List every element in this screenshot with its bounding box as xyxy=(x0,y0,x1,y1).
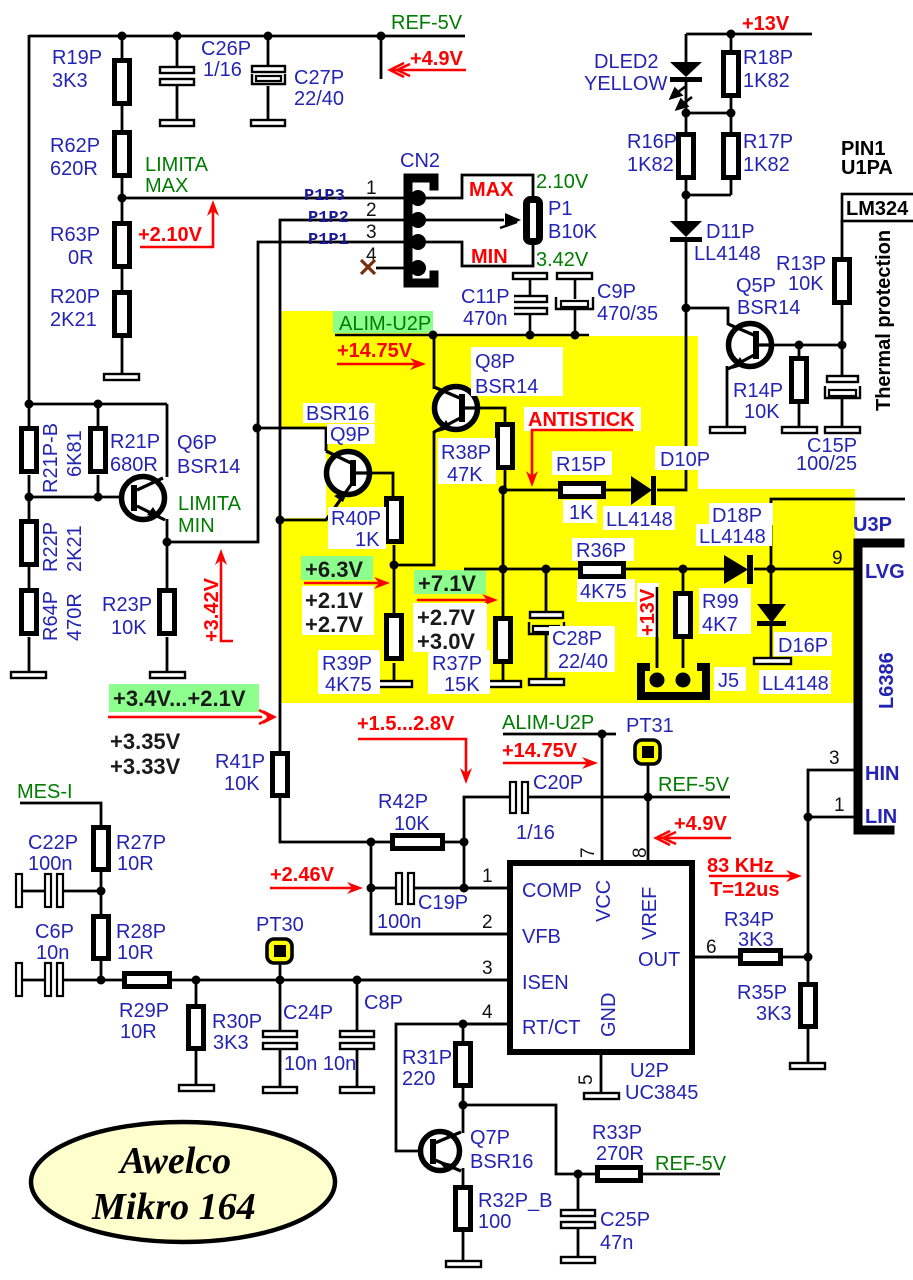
wire LED/R18P joining row xyxy=(686,112,731,115)
resistor R19P xyxy=(115,61,130,104)
label J5 xyxy=(714,667,746,691)
wire R42P node row xyxy=(443,841,464,844)
wire C22P row xyxy=(22,890,45,893)
wire R16P/R17P bottom row xyxy=(686,194,731,197)
wire D16P stem xyxy=(770,569,773,604)
svg-text:LL4148: LL4148 xyxy=(606,509,673,531)
yellow highlight region xyxy=(281,311,855,703)
wire +13V rail xyxy=(686,33,812,36)
svg-text:C6P: C6P xyxy=(35,921,74,943)
wire RTCT pin4 xyxy=(463,1023,510,1026)
J5 pin right xyxy=(676,673,691,688)
wire pin1 to P1 top xyxy=(426,175,533,198)
svg-text:22/40: 22/40 xyxy=(558,651,608,673)
svg-text:6K81: 6K81 xyxy=(64,430,86,477)
terminal C6P xyxy=(16,963,22,996)
wire +6.3V node to R39P xyxy=(393,565,396,613)
svg-text:1: 1 xyxy=(482,866,493,887)
wire Q5P emitter to ground xyxy=(726,366,729,427)
svg-text:+13V: +13V xyxy=(742,13,790,35)
node dots bottom left xyxy=(97,838,469,985)
svg-text:+3.35V: +3.35V xyxy=(110,729,181,754)
resistor R36P horizontal xyxy=(581,564,624,577)
wire D10P to D11P column xyxy=(657,308,686,490)
svg-text:+3.0V: +3.0V xyxy=(417,629,475,654)
svg-text:R19P: R19P xyxy=(52,47,102,69)
wire Q6P emitter xyxy=(166,519,169,588)
label BSR16 Q9P xyxy=(303,403,375,423)
svg-text:R30P: R30P xyxy=(212,1011,262,1033)
svg-text:D11P: D11P xyxy=(706,221,755,243)
svg-text:83 KHz: 83 KHz xyxy=(707,855,774,877)
wire C20P elbow xyxy=(464,797,511,842)
box LM324 xyxy=(842,194,913,221)
wire Q8P base stub to R38P xyxy=(466,408,505,422)
svg-text:10R: 10R xyxy=(120,1021,157,1043)
resistor R37P xyxy=(496,619,511,662)
svg-text:R27P: R27P xyxy=(116,832,166,854)
wire LVG row y569 xyxy=(464,568,580,571)
wire R15P node row xyxy=(503,489,560,492)
wire Q9P emitter from P1P2 node xyxy=(280,519,327,522)
svg-text:Q5P: Q5P xyxy=(736,275,776,297)
label D16P xyxy=(774,632,832,656)
ground under R39P xyxy=(377,681,412,687)
resistor R20P xyxy=(115,293,130,336)
svg-text:+2.7V: +2.7V xyxy=(305,612,363,637)
svg-text:MIN: MIN xyxy=(178,515,215,537)
wire P1P2 net xyxy=(280,220,411,520)
terminal C22P xyxy=(16,874,22,907)
LED DLED2 xyxy=(670,62,702,77)
ground under R20P xyxy=(104,374,139,380)
wire RT/CT to Q7P base xyxy=(396,1024,510,1151)
svg-text:1K82: 1K82 xyxy=(627,154,674,176)
label R38P 47K xyxy=(438,438,496,484)
svg-text:1: 1 xyxy=(834,795,845,816)
wire Q6P base row y497 xyxy=(29,496,121,499)
svg-text:R13P: R13P xyxy=(776,253,826,275)
svg-text:J5: J5 xyxy=(718,670,739,692)
node dots right xyxy=(804,813,813,962)
svg-text:4K7: 4K7 xyxy=(702,614,738,636)
diode D11P xyxy=(670,221,702,237)
ground under C8P xyxy=(340,1087,374,1093)
svg-text:15K: 15K xyxy=(444,674,480,696)
svg-text:1: 1 xyxy=(366,178,377,199)
svg-text:8: 8 xyxy=(630,847,651,858)
svg-text:R41P: R41P xyxy=(215,751,265,773)
svg-text:2: 2 xyxy=(366,200,377,221)
resistor R34P horizontal xyxy=(741,951,781,964)
label R36P 4K75 xyxy=(572,538,634,561)
capacitor C9P polarized xyxy=(557,273,592,279)
svg-text:C11P: C11P xyxy=(461,286,510,308)
svg-text:470R: 470R xyxy=(64,593,86,641)
svg-text:7: 7 xyxy=(578,847,599,858)
svg-text:BSR14: BSR14 xyxy=(475,376,538,398)
wire LVG up and right xyxy=(771,499,905,569)
resistor R99 xyxy=(676,594,691,637)
node dots U2P area xyxy=(459,730,653,1029)
svg-text:MES-I: MES-I xyxy=(17,781,73,803)
svg-text:LM324: LM324 xyxy=(846,198,909,220)
svg-text:REF-5V: REF-5V xyxy=(391,12,463,34)
resistor R38P xyxy=(498,425,513,468)
svg-text:UC3845: UC3845 xyxy=(625,1082,698,1104)
resistor R63P xyxy=(115,224,130,267)
svg-text:+14.75V: +14.75V xyxy=(502,740,578,762)
svg-text:C24P: C24P xyxy=(283,1002,333,1024)
wire R28P bottom xyxy=(100,960,103,980)
svg-text:C9P: C9P xyxy=(597,281,636,303)
svg-text:+4.9V: +4.9V xyxy=(674,813,727,835)
svg-text:C20P: C20P xyxy=(533,772,583,794)
terminal bar under D16P xyxy=(754,658,791,664)
svg-text:220: 220 xyxy=(402,1068,435,1090)
svg-text:+2.10V: +2.10V xyxy=(138,224,203,246)
svg-text:+3.33V: +3.33V xyxy=(110,754,181,779)
resistor R23P xyxy=(160,591,175,634)
svg-text:47n: 47n xyxy=(600,1232,633,1254)
resistor R30P xyxy=(189,1007,204,1049)
wire Q8P collector to ALIM row xyxy=(433,335,436,389)
label +2.1V +2.7V xyxy=(302,586,374,635)
diode D10P xyxy=(631,476,652,505)
svg-text:R15P: R15P xyxy=(556,454,606,476)
CN2 pin 2 xyxy=(410,212,426,228)
svg-text:Q7P: Q7P xyxy=(470,1127,510,1149)
wire R15P to D10P xyxy=(605,489,632,492)
svg-text:LIMITA: LIMITA xyxy=(178,493,242,515)
ground under R23P xyxy=(150,672,185,678)
label R40P 1K xyxy=(328,507,386,549)
resistor R27P xyxy=(94,828,109,870)
test point PT30 xyxy=(267,939,292,963)
arrow +4.9V pointing left xyxy=(390,63,466,77)
ground under C24P xyxy=(263,1087,297,1093)
svg-text:ISEN: ISEN xyxy=(522,972,569,994)
wire Q9P base from P1P1 node xyxy=(257,428,326,451)
svg-text:47K: 47K xyxy=(447,464,483,486)
wire PT30 stub xyxy=(279,962,282,980)
svg-text:2K21: 2K21 xyxy=(50,309,97,331)
svg-text:COMP: COMP xyxy=(522,880,582,902)
resistor R21P-B xyxy=(22,429,37,472)
svg-text:LVG: LVG xyxy=(865,561,905,583)
svg-text:D10P: D10P xyxy=(660,449,710,471)
ground under C28P xyxy=(529,679,564,685)
wire +6.3V node to Q8P emitter xyxy=(394,431,434,565)
wire Q5P base row xyxy=(772,344,842,347)
svg-text:R99: R99 xyxy=(702,591,739,613)
svg-text:P1P1: P1P1 xyxy=(308,231,349,250)
CN2 pin 3 xyxy=(410,234,426,250)
svg-text:U1PA: U1PA xyxy=(841,157,893,179)
capacitor C28P polarized xyxy=(530,612,563,618)
svg-text:R33P: R33P xyxy=(592,1122,642,1144)
ground under R64P xyxy=(11,672,46,678)
node dots top right xyxy=(682,30,847,350)
svg-text:Q6P: Q6P xyxy=(177,432,217,454)
ground under C27P xyxy=(251,120,285,126)
logo Awelco Mikro 164 xyxy=(31,1122,335,1242)
wire Q7P collector row to R33P xyxy=(463,1105,597,1174)
wire C15P stems xyxy=(841,345,844,376)
svg-text:LIN: LIN xyxy=(865,806,897,828)
wire REF stub down xyxy=(380,36,383,79)
svg-text:R23P: R23P xyxy=(102,594,152,616)
svg-text:R21P-B: R21P-B xyxy=(40,423,62,493)
svg-text:VFB: VFB xyxy=(522,926,561,948)
svg-text:R18P: R18P xyxy=(743,47,793,69)
svg-text:+2.7V: +2.7V xyxy=(417,605,475,630)
IC U3P L6386 outline xyxy=(858,543,900,830)
svg-text:470n: 470n xyxy=(463,308,508,330)
svg-text:VCC: VCC xyxy=(593,880,615,922)
svg-text:R63P: R63P xyxy=(50,224,100,246)
svg-text:R29P: R29P xyxy=(119,1000,169,1022)
svg-text:Thermal protection: Thermal protection xyxy=(873,230,895,411)
svg-text:3K3: 3K3 xyxy=(738,929,774,951)
svg-text:ALIM-U2P: ALIM-U2P xyxy=(339,313,431,335)
svg-text:U3P: U3P xyxy=(853,514,892,536)
capacitor C15P polarized xyxy=(827,376,858,382)
svg-text:ALIM-U2P: ALIM-U2P xyxy=(502,712,594,734)
ground under C26P xyxy=(160,120,194,126)
svg-text:RT/CT: RT/CT xyxy=(522,1017,581,1039)
svg-text:10K: 10K xyxy=(788,273,824,295)
transistor Q8P xyxy=(435,387,478,430)
no-connect X mark xyxy=(361,260,375,274)
label LL4148 D16P xyxy=(759,670,831,694)
svg-text:100/25: 100/25 xyxy=(796,453,857,475)
wire C28P stem xyxy=(545,569,548,613)
svg-text:4K75: 4K75 xyxy=(325,674,372,696)
svg-text:+7.1V: +7.1V xyxy=(418,571,476,596)
label R99 4K7 xyxy=(699,588,751,634)
wire LIN xyxy=(808,816,855,819)
svg-text:LL4148: LL4148 xyxy=(694,243,761,265)
svg-text:LL4148: LL4148 xyxy=(699,526,766,548)
svg-text:620R: 620R xyxy=(50,158,98,180)
resistor R13P xyxy=(835,260,850,303)
wire R99 stem xyxy=(682,569,685,591)
svg-text:1/16: 1/16 xyxy=(203,59,242,81)
svg-text:T=12us: T=12us xyxy=(710,879,779,901)
diode D18P xyxy=(724,555,748,584)
node dots ALIM row xyxy=(429,331,438,340)
wire C19P row xyxy=(371,842,510,934)
svg-text:+1.5...2.8V: +1.5...2.8V xyxy=(357,713,455,735)
svg-text:R34P: R34P xyxy=(724,909,774,931)
svg-text:10R: 10R xyxy=(117,942,154,964)
wire R15P node down to R37P node xyxy=(502,490,505,569)
transistor Q5P xyxy=(729,324,772,367)
transistor Q6P xyxy=(122,477,165,520)
svg-text:D18P: D18P xyxy=(712,505,762,527)
ground under R14P xyxy=(782,427,817,433)
svg-text:R32P_B: R32P_B xyxy=(478,1190,553,1212)
svg-text:GND: GND xyxy=(598,993,620,1037)
svg-text:DLED2: DLED2 xyxy=(594,51,658,73)
connector J5 xyxy=(641,667,706,696)
svg-text:C25P: C25P xyxy=(600,1209,650,1231)
label LL4148 D10P xyxy=(603,506,675,530)
svg-text:3: 3 xyxy=(366,222,377,243)
CN2 pin 4 xyxy=(410,260,426,276)
wire R37P down xyxy=(502,569,505,616)
svg-text:1/16: 1/16 xyxy=(516,822,555,844)
svg-text:R31P: R31P xyxy=(402,1047,452,1069)
svg-text:+2.1V: +2.1V xyxy=(305,588,363,613)
svg-text:100n: 100n xyxy=(377,911,422,933)
svg-text:R42P: R42P xyxy=(378,791,428,813)
svg-text:P1P3: P1P3 xyxy=(304,187,345,206)
wire ISEN pin3 xyxy=(357,979,510,982)
capacitor C20P xyxy=(510,782,516,813)
svg-text:1K: 1K xyxy=(569,502,594,524)
capacitor C8P xyxy=(340,1031,374,1037)
wire left rail xyxy=(28,35,31,405)
svg-text:9: 9 xyxy=(832,548,843,569)
svg-text:+4.9V: +4.9V xyxy=(410,48,463,70)
svg-text:+14.75V: +14.75V xyxy=(337,340,413,362)
transistor Q9P xyxy=(327,452,370,495)
wire R16P R17P stems xyxy=(685,113,688,132)
svg-text:2K21: 2K21 xyxy=(64,525,86,572)
wire D11P stem xyxy=(685,195,688,221)
resistor R35P xyxy=(801,985,816,1027)
svg-text:R21P: R21P xyxy=(110,431,160,453)
svg-text:Mikro 164: Mikro 164 xyxy=(91,1186,256,1228)
svg-text:MIN: MIN xyxy=(471,246,508,268)
wire P1 bottom MIN xyxy=(426,242,533,266)
wire Q6P collector xyxy=(166,404,169,477)
capacitor C6P xyxy=(45,963,51,996)
wire Q7P collector xyxy=(462,1105,465,1133)
svg-text:PT30: PT30 xyxy=(256,914,304,936)
svg-text:C8P: C8P xyxy=(364,992,403,1014)
resistor R29P horizontal xyxy=(125,974,170,987)
label ANTISTICK with arrow xyxy=(524,407,641,431)
node dots bottom xyxy=(459,1101,583,1179)
svg-text:R16P: R16P xyxy=(627,131,677,153)
capacitor C26P xyxy=(160,67,194,73)
wire R27P bottom xyxy=(100,871,103,914)
resistor R21P xyxy=(91,429,106,472)
resistor R33P horizontal xyxy=(598,1168,641,1181)
wire R19P column xyxy=(121,36,124,58)
svg-text:R37P: R37P xyxy=(432,653,482,675)
resistor R14P xyxy=(792,359,807,402)
arrow +3.4V row xyxy=(108,710,272,724)
svg-text:D16P: D16P xyxy=(778,635,828,657)
svg-text:1K82: 1K82 xyxy=(743,154,790,176)
svg-text:100: 100 xyxy=(478,1211,511,1233)
svg-text:+3.4V...+2.1V: +3.4V...+2.1V xyxy=(113,686,246,711)
connector CN2 body xyxy=(408,178,434,283)
DLED2 light arrows xyxy=(671,86,692,109)
svg-text:22/40: 22/40 xyxy=(294,88,344,110)
resistor R42P horizontal xyxy=(393,836,443,849)
wire R34P to node xyxy=(783,956,808,959)
wire left rail segments xyxy=(28,404,31,428)
label R39P 4K75 xyxy=(318,650,380,694)
ground under U2P GND xyxy=(584,1093,619,1099)
resistor R16P xyxy=(679,135,694,178)
test point PT31 xyxy=(635,740,660,764)
svg-text:2.10V: 2.10V xyxy=(536,171,589,193)
wire R35P stems xyxy=(807,957,810,982)
wire C24P stems xyxy=(279,980,282,1031)
svg-text:Q9P: Q9P xyxy=(330,424,370,446)
label 1K xyxy=(563,500,597,523)
svg-text:+2.46V: +2.46V xyxy=(270,864,335,886)
svg-text:3K3: 3K3 xyxy=(213,1032,249,1054)
svg-text:C22P: C22P xyxy=(28,832,78,854)
capacitor C11P xyxy=(513,273,547,279)
wire Q7P emitter to R32P_B xyxy=(462,1168,465,1185)
green highlight +3.4V...+2.1V xyxy=(109,684,259,712)
wire R33P right REF-5V xyxy=(642,1173,720,1176)
svg-text:Awelco: Awelco xyxy=(118,1140,231,1182)
svg-text:3: 3 xyxy=(829,748,840,769)
svg-text:10n 10n: 10n 10n xyxy=(284,1053,356,1075)
resistor R31P xyxy=(456,1044,471,1086)
green highlight ALIM-U2P xyxy=(333,311,433,333)
svg-text:LIMITA: LIMITA xyxy=(145,154,209,176)
wire R18P stems xyxy=(730,34,733,50)
resistor R28P xyxy=(94,917,109,959)
resistor R40P xyxy=(387,499,402,542)
ground under Q5P emitter xyxy=(710,427,745,433)
svg-text:R14P: R14P xyxy=(733,380,783,402)
node dots left mid xyxy=(25,400,285,547)
svg-text:CN2: CN2 xyxy=(400,150,440,172)
wire R39P to ground xyxy=(393,663,396,681)
label C28P 22/40 xyxy=(549,626,615,672)
capacitor C24P xyxy=(263,1031,297,1037)
white notch near Q9P xyxy=(281,429,326,518)
svg-text:Q8P: Q8P xyxy=(475,351,515,373)
arrow +6.3V xyxy=(304,582,381,585)
svg-text:3.42V: 3.42V xyxy=(536,249,589,271)
svg-text:YELLOW: YELLOW xyxy=(584,73,667,95)
resistor R64P xyxy=(22,591,37,634)
svg-text:C27P: C27P xyxy=(294,67,344,89)
wire R38P to R15P node xyxy=(504,467,507,490)
svg-text:270R: 270R xyxy=(596,1143,644,1165)
svg-text:10n: 10n xyxy=(36,942,69,964)
svg-text:C28P: C28P xyxy=(552,628,602,650)
svg-text:3K3: 3K3 xyxy=(52,70,88,92)
capacitor C25P xyxy=(561,1210,595,1216)
svg-text:5: 5 xyxy=(576,1074,597,1085)
svg-text:L6386: L6386 xyxy=(876,652,898,709)
wire R40P to +6.3V node xyxy=(393,545,396,566)
label +13V rotated xyxy=(637,583,659,637)
svg-text:OUT: OUT xyxy=(638,949,680,971)
wire R21P column xyxy=(97,404,100,428)
svg-text:3: 3 xyxy=(482,958,493,979)
wire +13V stub to J5 xyxy=(656,587,659,668)
svg-text:ANTISTICK: ANTISTICK xyxy=(528,409,635,431)
resistor R18P xyxy=(724,53,739,96)
CN2 pin 1 xyxy=(410,190,426,206)
wire GND pin5 xyxy=(600,1052,603,1093)
svg-text:PT31: PT31 xyxy=(626,715,674,737)
